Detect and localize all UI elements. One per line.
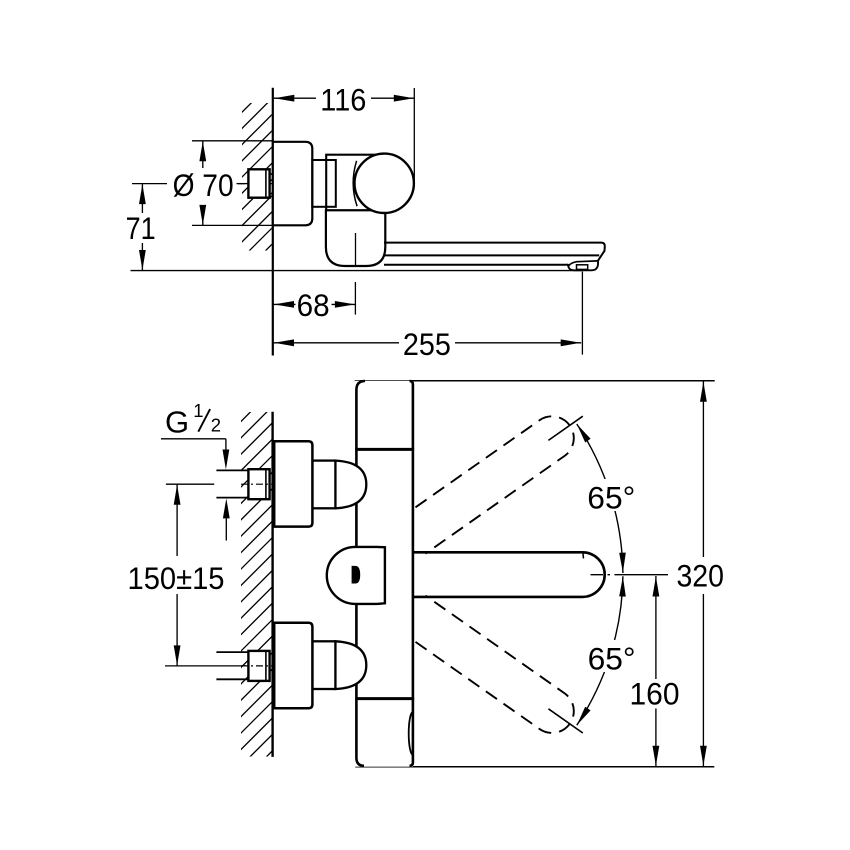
supply pipe collar arc (top view) — [270, 174, 278, 195]
upper fitting center line — [241, 483, 274, 485]
svg-text:2: 2 — [211, 415, 221, 436]
svg-text:1: 1 — [193, 400, 203, 421]
dimension 71 — [132, 183, 167, 185]
svg-text:Ø 70: Ø 70 — [173, 167, 234, 203]
upper union nut (front view) — [248, 469, 269, 499]
lower supply dome (front view) — [335, 641, 366, 689]
rotated spout center tick (up) — [548, 416, 582, 440]
upper supply neck (front view) — [312, 461, 335, 509]
cartridge housing (top view) — [326, 155, 385, 211]
spout end seam (front view) — [582, 554, 585, 559]
swivel spout rotated down (dashed) — [416, 596, 574, 733]
spout tip / mousseur housing (top view) — [568, 261, 598, 270]
svg-text:68: 68 — [297, 287, 330, 323]
65 degree arc (upper) — [577, 424, 623, 573]
upper supply pipe (front view) — [216, 469, 248, 471]
upper supply housing (front view) — [274, 441, 312, 526]
dimension dia 70 — [202, 141, 204, 168]
spout bottom edge (top view) — [384, 264, 568, 266]
svg-text:255: 255 — [403, 326, 451, 362]
G 1/2 lower arrow — [225, 505, 227, 541]
lower supply housing (front view) — [274, 623, 312, 708]
spout center line (front view) — [591, 574, 619, 576]
svg-text:71: 71 — [126, 210, 156, 246]
dimension 320 — [702, 381, 704, 557]
wall line (front view) — [271, 412, 273, 757]
control knob circle (top view) — [355, 154, 414, 213]
body column right edge — [410, 381, 413, 766]
dimension 68 — [274, 303, 356, 305]
spout elbow (top view) — [326, 210, 385, 266]
faucet body column (front view) — [355, 381, 413, 767]
bottom reference line (front view) — [355, 766, 714, 768]
supply union nut (top view) — [248, 169, 269, 197]
wall escutcheon (top view) — [273, 142, 313, 226]
svg-text:65°: 65° — [587, 480, 635, 516]
dimension 255 — [274, 342, 582, 344]
center line of supply fitting (top view) — [238, 183, 275, 185]
lower supply pipe (front view) — [216, 651, 248, 653]
lower union nut (front view) — [248, 651, 269, 681]
dimension 160 — [655, 576, 657, 679]
extension lines for dia 70 — [192, 140, 273, 142]
spout (front view) — [414, 552, 605, 597]
leader line from mousseur (top view) — [581, 272, 583, 355]
wall hatching (top view) — [230, 36, 302, 335]
rotated spout center tick (down) — [548, 709, 582, 733]
svg-text:116: 116 — [320, 81, 366, 117]
spout top edge (top view) — [384, 243, 605, 261]
svg-text:320: 320 — [676, 558, 724, 594]
knob cylinder edge arc (top view) — [353, 161, 357, 207]
leader line to supply fitting (top view) — [237, 183, 249, 185]
wall line (top view) — [272, 88, 274, 356]
pivot end cap arc (front view) — [409, 712, 413, 755]
sensor dome (front view) — [327, 547, 385, 604]
svg-text:160: 160 — [630, 676, 680, 712]
svg-text:150±15: 150±15 — [128, 560, 225, 596]
leader line G 1/2 — [161, 438, 226, 440]
infrared sensor window (black) — [352, 566, 361, 584]
65 degree arc (lower) — [577, 576, 623, 725]
dimension 116 — [274, 97, 415, 99]
reference line y=270 (top view) — [131, 270, 582, 272]
neck ring (top view) — [312, 160, 336, 207]
svg-text:G: G — [165, 405, 189, 440]
extension line x=414 (116 dim) — [413, 88, 415, 184]
elbow center mark (top view) — [355, 233, 357, 266]
lower fitting center line — [241, 665, 274, 667]
extension tick x=355 (68 dim) — [354, 282, 356, 315]
swivel spout rotated up (dashed) — [416, 416, 574, 553]
extension tick (upper fitting center) — [166, 483, 214, 485]
body column left edge — [356, 381, 365, 766]
mousseur (top view) — [577, 265, 588, 270]
wall hatching (front view) — [229, 344, 302, 843]
spout middle edge (top view) — [384, 254, 599, 256]
body bottom cap joint line — [355, 697, 414, 700]
lower supply neck (front view) — [312, 641, 335, 689]
upper supply dome (front view) — [335, 461, 366, 509]
dimension 150 +/- 15 — [176, 484, 178, 556]
extension tick (lower fitting center) — [165, 665, 246, 667]
top reference line (front view) — [355, 380, 715, 382]
body top cap joint line — [355, 448, 414, 451]
svg-text:65°: 65° — [588, 641, 636, 677]
